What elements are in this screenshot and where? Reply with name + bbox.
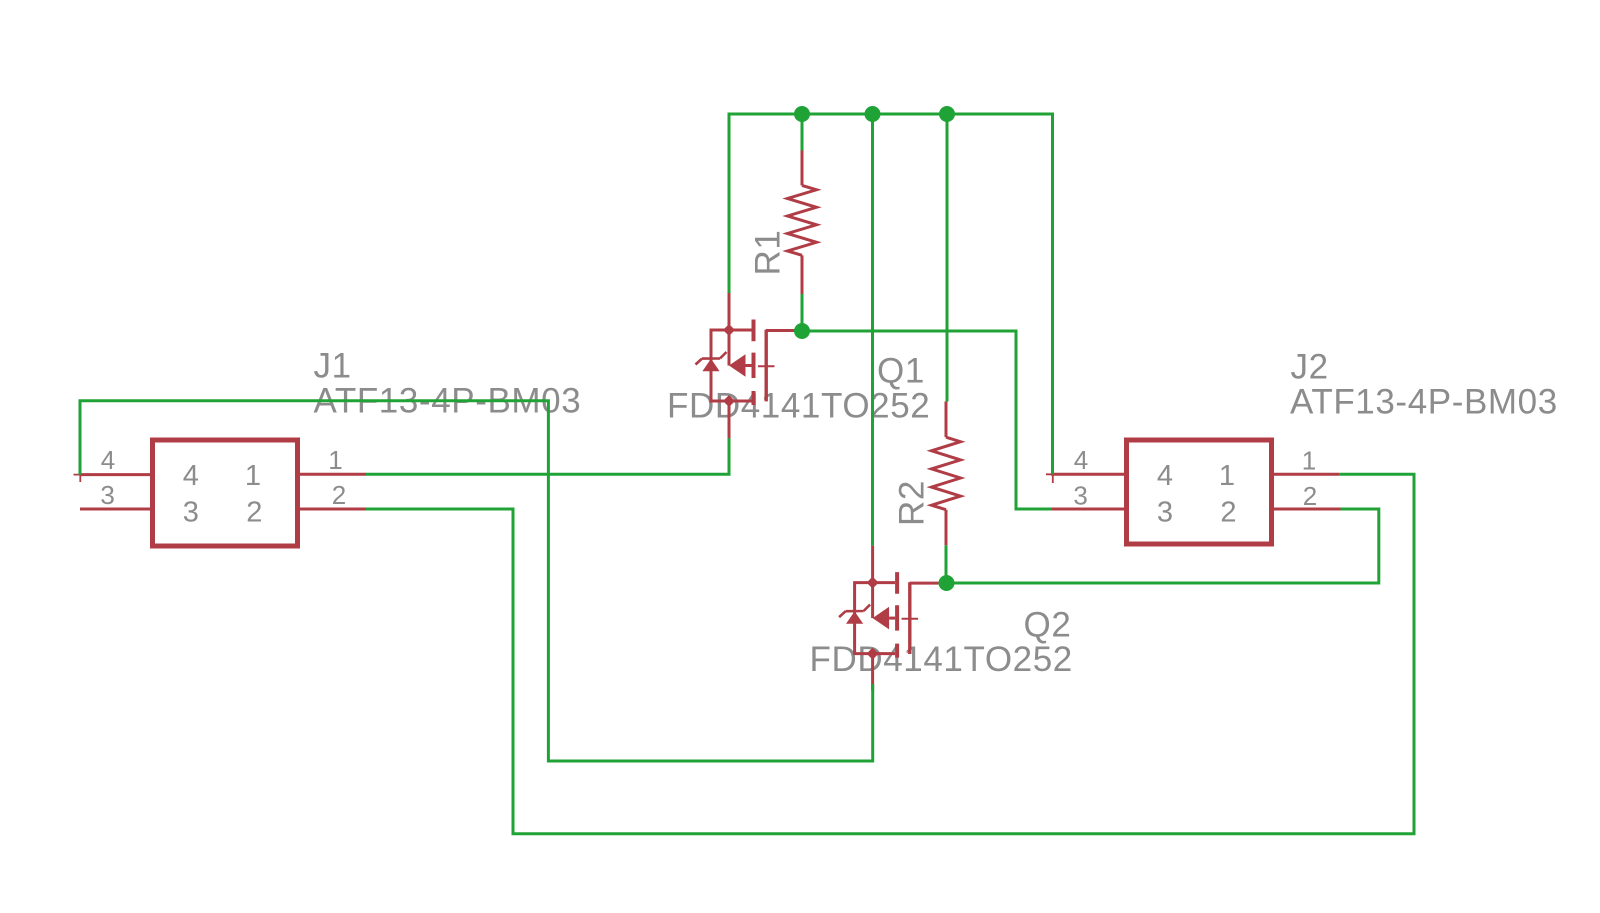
wire: R2 bottom to Q2 gate node xyxy=(945,545,948,583)
resistor R2 xyxy=(932,402,961,546)
svg-text:4: 4 xyxy=(1074,445,1088,475)
wire: top supply rail with drops to Q1 source and J2 pin 4 xyxy=(729,114,1053,474)
connector J2 box xyxy=(1127,440,1272,544)
svg-text:4: 4 xyxy=(183,460,199,492)
svg-text:1: 1 xyxy=(245,460,261,492)
junction dot node Q2 gate / R2 xyxy=(939,575,955,591)
J2 pin 1 lead xyxy=(1274,473,1339,476)
svg-text:Q2: Q2 xyxy=(1024,606,1072,645)
svg-text:R2: R2 xyxy=(893,480,932,526)
J2 pin 2 lead xyxy=(1274,508,1341,511)
svg-text:2: 2 xyxy=(1220,497,1236,529)
J1 pin 4 endpoint cross xyxy=(74,468,88,483)
svg-text:3: 3 xyxy=(1073,480,1087,510)
junction dot on rail at R1 xyxy=(794,106,810,122)
wire: Q2 gate node to J2 pin 2 xyxy=(947,509,1379,583)
svg-text:1: 1 xyxy=(328,445,342,475)
svg-text:1: 1 xyxy=(1219,460,1235,492)
svg-text:1: 1 xyxy=(1302,445,1316,475)
wire: rail drop to R2 top xyxy=(946,114,949,402)
J1 pin 3 lead xyxy=(80,508,150,511)
wire: rail drop to Q2 source xyxy=(871,114,874,546)
resistor R1 xyxy=(788,151,817,295)
wire: Q1 gate node to J2 pin 3 xyxy=(802,331,1051,509)
svg-text:R1: R1 xyxy=(749,230,788,276)
svg-text:2: 2 xyxy=(332,480,346,510)
svg-text:FDD4141TO252: FDD4141TO252 xyxy=(810,640,1073,679)
svg-text:2: 2 xyxy=(1303,481,1317,511)
junction dot on rail at R2 drop xyxy=(939,106,955,122)
svg-text:ATF13-4P-BM03: ATF13-4P-BM03 xyxy=(1290,383,1558,422)
svg-text:J2: J2 xyxy=(1291,348,1329,387)
wire: J1 pin 2 to J2 pin 1 xyxy=(366,474,1414,833)
transistor Q2 P-MOSFET FDD4141TO252 xyxy=(839,546,939,691)
J1 pin 2 lead xyxy=(300,508,366,511)
J1 pin 1 lead xyxy=(300,473,366,476)
transistor Q1 P-MOSFET FDD4141TO252 xyxy=(696,293,796,438)
svg-text:Q1: Q1 xyxy=(877,351,925,390)
connector J1 box xyxy=(153,440,298,546)
svg-text:4: 4 xyxy=(101,445,115,475)
wire: R1 bottom to Q1 gate node xyxy=(801,294,804,331)
svg-text:J1: J1 xyxy=(314,347,352,386)
J2 pin 3 lead xyxy=(1051,508,1124,511)
svg-text:3: 3 xyxy=(1157,497,1173,529)
wire: R1 top lead to rail xyxy=(801,114,804,151)
wire: J1 pin 4 to Q2 drain xyxy=(80,401,873,761)
J2 pin 4 lead xyxy=(1051,473,1124,476)
svg-text:3: 3 xyxy=(100,480,114,510)
wire: J1 pin 1 to Q1 drain xyxy=(366,438,729,474)
svg-text:2: 2 xyxy=(246,497,262,529)
svg-text:4: 4 xyxy=(1157,460,1173,492)
svg-text:FDD4141TO252: FDD4141TO252 xyxy=(667,386,930,425)
J2 pin 4 endpoint cross xyxy=(1046,468,1060,484)
junction dot on rail at Q2 source drop xyxy=(865,106,881,122)
junction dot node Q1 gate / R1 xyxy=(794,323,810,339)
J1 pin 4 lead xyxy=(80,473,150,476)
svg-text:3: 3 xyxy=(183,497,199,529)
